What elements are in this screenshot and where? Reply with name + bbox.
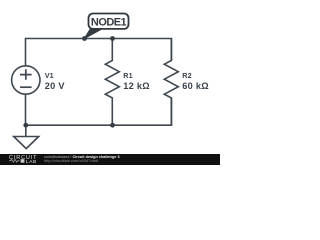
label R2 60 kΩ	[182, 71, 209, 91]
svg-text:LAB: LAB	[26, 159, 37, 165]
label V1 20 V	[45, 71, 66, 91]
ground	[14, 125, 39, 148]
svg-text:R1: R1	[123, 71, 133, 80]
wire top: V1 top to R2 top	[26, 39, 172, 67]
svg-text:R2: R2	[182, 71, 192, 80]
node NODE1 flag tail	[84, 28, 102, 39]
voltage source V1	[12, 66, 40, 94]
svg-text:http://circuitlab.com/c6367dm6: http://circuitlab.com/c6367dm6	[44, 158, 99, 163]
junction dot: node A top (flag tip)	[82, 36, 87, 41]
junction dot: R1 top	[110, 36, 115, 41]
svg-text:12 kΩ: 12 kΩ	[123, 81, 150, 91]
svg-text:NODE1: NODE1	[91, 17, 127, 29]
watermark bar	[0, 154, 220, 165]
resistor R2	[164, 39, 178, 126]
junction dot: R1 bottom	[110, 123, 115, 128]
svg-text:20 V: 20 V	[45, 81, 66, 91]
svg-text:60 kΩ: 60 kΩ	[182, 81, 209, 91]
label R1 12 kΩ	[123, 71, 150, 91]
watermark logo CIRCUIT LAB	[9, 155, 37, 165]
junction dot: ground node	[23, 123, 28, 128]
resistor R1	[105, 39, 119, 126]
svg-text:V1: V1	[45, 71, 54, 80]
wire bottom: ground node to R2 bottom	[26, 95, 172, 125]
node NODE1 flag box	[89, 14, 129, 29]
